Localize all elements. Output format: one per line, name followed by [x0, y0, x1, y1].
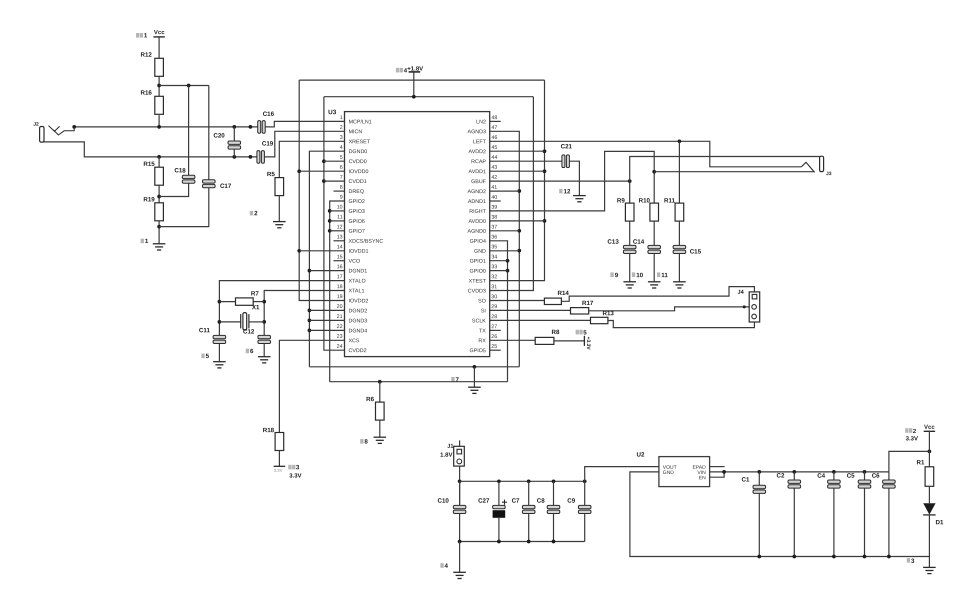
svg-text:GPIO3: GPIO3 — [349, 209, 365, 215]
svg-text:C2: C2 — [777, 473, 785, 480]
svg-text:35: 35 — [491, 244, 497, 250]
svg-text:C11: C11 — [199, 327, 211, 334]
svg-text:IOVDD0: IOVDD0 — [349, 169, 369, 175]
svg-text:R19: R19 — [143, 196, 155, 203]
svg-text:37: 37 — [491, 225, 497, 231]
svg-text:C19: C19 — [262, 140, 274, 147]
svg-text:XTALO: XTALO — [349, 279, 366, 285]
svg-text:TX: TX — [479, 328, 486, 334]
svg-text:+1.8V: +1.8V — [407, 67, 423, 73]
svg-text:23: 23 — [337, 334, 343, 340]
svg-text:LN2: LN2 — [476, 119, 486, 125]
svg-text:1: 1 — [340, 115, 343, 121]
svg-text:1: 1 — [144, 32, 148, 39]
svg-text:C13: C13 — [607, 239, 619, 246]
svg-text:3.3V: 3.3V — [274, 468, 283, 473]
svg-text:C14: C14 — [633, 239, 645, 246]
svg-text:CVDD2: CVDD2 — [348, 348, 366, 354]
svg-text:U2: U2 — [637, 451, 645, 458]
svg-text:RX: RX — [478, 338, 486, 344]
svg-text:15: 15 — [337, 254, 343, 260]
svg-text:R5: R5 — [267, 171, 275, 178]
svg-text:XRESET: XRESET — [349, 139, 371, 145]
svg-text:GPIO7: GPIO7 — [349, 229, 365, 235]
svg-text:16: 16 — [337, 264, 343, 270]
svg-text:D1: D1 — [935, 519, 943, 526]
svg-text:C7: C7 — [512, 498, 520, 505]
svg-text:GPIO0: GPIO0 — [470, 269, 486, 275]
svg-text:C20: C20 — [213, 132, 225, 139]
svg-text:R8: R8 — [551, 329, 559, 336]
svg-text:AGND0: AGND0 — [468, 229, 486, 235]
svg-text:AVDD1: AVDD1 — [469, 169, 486, 175]
svg-text:LEFT: LEFT — [473, 139, 487, 145]
svg-text:XDCS/BSYNC: XDCS/BSYNC — [349, 239, 384, 245]
svg-text:3: 3 — [340, 135, 343, 141]
svg-text:11: 11 — [661, 272, 668, 279]
svg-text:24: 24 — [337, 344, 343, 350]
svg-text:IOVDD1: IOVDD1 — [349, 249, 369, 255]
svg-text:GPIO2: GPIO2 — [349, 199, 365, 205]
svg-text:R7: R7 — [251, 290, 259, 297]
svg-text:DREQ: DREQ — [349, 189, 364, 195]
svg-text:R18: R18 — [263, 427, 275, 434]
svg-text:13: 13 — [337, 234, 343, 240]
svg-text:38: 38 — [491, 215, 497, 221]
svg-text:AVDD0: AVDD0 — [469, 219, 486, 225]
svg-text:31: 31 — [491, 284, 497, 290]
svg-text:14: 14 — [337, 244, 343, 250]
svg-text:DGND4: DGND4 — [348, 328, 367, 334]
svg-text:MCP/LN1: MCP/LN1 — [349, 119, 372, 125]
svg-text:Vcc: Vcc — [924, 425, 935, 431]
svg-text:47: 47 — [491, 125, 497, 131]
svg-text:19: 19 — [337, 294, 343, 300]
svg-text:7: 7 — [340, 175, 343, 181]
svg-text:C9: C9 — [567, 498, 575, 505]
svg-text:5: 5 — [206, 353, 210, 360]
svg-text:CVDD1: CVDD1 — [349, 179, 367, 185]
svg-text:3.3V: 3.3V — [906, 436, 918, 442]
svg-text:45: 45 — [491, 145, 497, 151]
svg-text:R15: R15 — [143, 161, 155, 168]
svg-text:R1: R1 — [917, 459, 925, 466]
svg-text:DGND3: DGND3 — [348, 318, 367, 324]
svg-text:48: 48 — [491, 115, 497, 121]
svg-text:R13: R13 — [602, 310, 614, 317]
svg-text:XCS: XCS — [348, 338, 359, 344]
svg-text:1.8V: 1.8V — [440, 453, 452, 459]
svg-text:C21: C21 — [561, 143, 573, 150]
svg-text:R6: R6 — [366, 396, 374, 403]
svg-text:VCO: VCO — [349, 259, 361, 265]
svg-text:27: 27 — [491, 324, 497, 330]
svg-text:33: 33 — [491, 264, 497, 270]
svg-text:5: 5 — [583, 329, 587, 336]
svg-text:R17: R17 — [582, 300, 594, 307]
svg-text:32: 32 — [491, 274, 497, 280]
svg-text:AGND2: AGND2 — [468, 189, 486, 195]
svg-text:GPIO1: GPIO1 — [470, 259, 486, 265]
svg-text:1: 1 — [145, 238, 149, 245]
svg-text:R11: R11 — [664, 197, 676, 204]
svg-text:XTEST: XTEST — [469, 279, 487, 285]
svg-text:C5: C5 — [847, 473, 855, 480]
svg-text:22: 22 — [337, 324, 343, 330]
svg-text:34: 34 — [491, 254, 497, 260]
svg-text:40: 40 — [491, 195, 497, 201]
svg-text:GPIO4: GPIO4 — [470, 239, 486, 245]
svg-text:10: 10 — [636, 272, 643, 279]
svg-text:3.3V: 3.3V — [289, 474, 301, 480]
svg-text:C8: C8 — [537, 498, 545, 505]
svg-text:R9: R9 — [617, 197, 625, 204]
svg-text:6: 6 — [250, 348, 254, 355]
svg-text:AGND3: AGND3 — [468, 129, 486, 135]
svg-text:MICN: MICN — [349, 129, 363, 135]
svg-text:DGND2: DGND2 — [348, 308, 367, 314]
svg-text:AVDD2: AVDD2 — [469, 149, 486, 155]
svg-text:36: 36 — [491, 235, 497, 241]
svg-text:26: 26 — [491, 334, 497, 340]
svg-text:41: 41 — [491, 185, 497, 191]
svg-text:29: 29 — [491, 304, 497, 310]
svg-text:C27: C27 — [478, 498, 490, 505]
svg-text:12: 12 — [564, 188, 571, 195]
svg-text:DGND1: DGND1 — [349, 269, 368, 275]
svg-text:GPIO6: GPIO6 — [349, 219, 365, 225]
svg-text:9: 9 — [615, 272, 619, 279]
svg-text:3: 3 — [911, 558, 915, 565]
svg-text:X1: X1 — [252, 304, 260, 311]
svg-text:39: 39 — [491, 205, 497, 211]
svg-text:2: 2 — [254, 210, 258, 217]
svg-text:EN: EN — [699, 475, 706, 481]
svg-text:Vcc: Vcc — [154, 30, 165, 36]
svg-text:R12: R12 — [141, 52, 153, 59]
svg-text:R10: R10 — [639, 197, 651, 204]
svg-text:GND: GND — [663, 470, 675, 476]
svg-text:C1: C1 — [742, 477, 750, 484]
svg-text:8: 8 — [364, 439, 368, 446]
svg-text:20: 20 — [337, 304, 343, 310]
svg-text:42: 42 — [491, 175, 497, 181]
svg-text:12: 12 — [337, 224, 343, 230]
svg-text:IOVDD2: IOVDD2 — [348, 298, 368, 304]
svg-text:SI: SI — [481, 308, 486, 314]
svg-text:C16: C16 — [263, 111, 275, 118]
svg-text:XTAL1: XTAL1 — [349, 288, 365, 294]
svg-text:4: 4 — [340, 145, 343, 151]
svg-text:25: 25 — [491, 344, 497, 350]
svg-text:ADND1: ADND1 — [468, 199, 486, 205]
svg-text:R16: R16 — [141, 90, 153, 97]
svg-text:30: 30 — [491, 294, 497, 300]
svg-text:GND: GND — [474, 249, 486, 255]
svg-text:U3: U3 — [328, 109, 337, 116]
svg-text:J1: J1 — [447, 444, 453, 450]
svg-text:6: 6 — [340, 165, 343, 171]
svg-text:8: 8 — [340, 185, 343, 191]
svg-text:C18: C18 — [174, 167, 186, 174]
svg-text:5: 5 — [340, 155, 343, 161]
svg-text:R14: R14 — [558, 290, 570, 297]
svg-text:C15: C15 — [690, 249, 702, 256]
svg-text:7: 7 — [456, 377, 460, 384]
svg-text:RIGHT: RIGHT — [469, 209, 486, 215]
svg-text:GBUF: GBUF — [471, 179, 487, 185]
svg-text:2: 2 — [340, 125, 343, 131]
svg-text:28: 28 — [491, 314, 497, 320]
svg-text:43: 43 — [491, 165, 497, 171]
svg-text:9: 9 — [340, 195, 343, 201]
svg-text:4: 4 — [445, 563, 449, 570]
svg-text:C6: C6 — [872, 473, 880, 480]
svg-text:3: 3 — [296, 464, 300, 471]
svg-text:SCLK: SCLK — [472, 318, 486, 324]
svg-text:CVDD0: CVDD0 — [349, 159, 367, 165]
svg-text:J3: J3 — [826, 171, 832, 177]
svg-text:17: 17 — [337, 274, 343, 280]
svg-text:J2: J2 — [33, 122, 39, 128]
svg-text:C4: C4 — [817, 473, 825, 480]
svg-text:44: 44 — [491, 155, 497, 161]
svg-text:GPIO5: GPIO5 — [470, 348, 486, 354]
svg-text:CVDD3: CVDD3 — [468, 288, 486, 294]
svg-text:J4: J4 — [738, 290, 745, 296]
svg-text:RCAP: RCAP — [471, 159, 486, 165]
svg-text:+3.3V: +3.3V — [585, 337, 591, 351]
svg-text:18: 18 — [337, 284, 343, 290]
svg-text:11: 11 — [337, 215, 343, 221]
svg-text:C12: C12 — [243, 328, 255, 335]
svg-text:DGND0: DGND0 — [349, 149, 368, 155]
svg-text:10: 10 — [337, 205, 343, 211]
svg-text:46: 46 — [491, 135, 497, 141]
svg-text:SO: SO — [478, 298, 486, 304]
svg-text:C17: C17 — [220, 183, 232, 190]
svg-text:21: 21 — [337, 314, 343, 320]
svg-text:C10: C10 — [437, 498, 449, 505]
